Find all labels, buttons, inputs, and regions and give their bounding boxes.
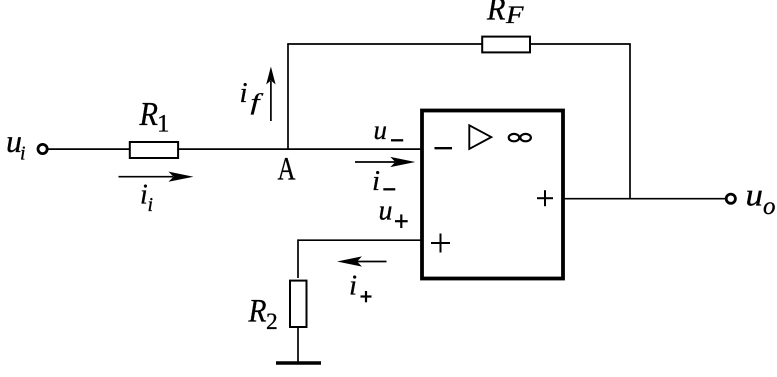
wire feedback top bbox=[287, 43, 631, 45]
svg-text:1: 1 bbox=[157, 111, 170, 138]
wire non-inverting input bbox=[298, 239, 421, 241]
svg-text:i: i bbox=[240, 77, 248, 109]
op-amp infinity gain symbol bbox=[509, 134, 520, 141]
svg-text:F: F bbox=[505, 2, 524, 29]
wire from non-inverting node down to R2 bbox=[297, 239, 299, 278]
svg-text:u: u bbox=[746, 177, 764, 213]
ground bbox=[276, 361, 321, 364]
resistor R1 bbox=[130, 142, 178, 158]
svg-text:R: R bbox=[486, 0, 505, 28]
wire R2 to ground bbox=[297, 327, 299, 362]
svg-text:2: 2 bbox=[266, 309, 278, 335]
wire feedback right vertical bbox=[629, 44, 631, 199]
svg-text:i: i bbox=[372, 165, 380, 197]
svg-text:o: o bbox=[763, 193, 776, 220]
resistor RF bbox=[482, 37, 530, 53]
op-amp inverting input minus sign bbox=[435, 147, 453, 149]
wire input u_i to R1 and on to op-amp inverting input bbox=[47, 148, 421, 150]
svg-text:i: i bbox=[148, 194, 154, 216]
svg-text:f: f bbox=[251, 90, 265, 115]
svg-text:u: u bbox=[379, 196, 393, 227]
current arrow i_minus bbox=[355, 161, 395, 163]
svg-text:A: A bbox=[278, 152, 296, 188]
resistor R2 bbox=[290, 281, 307, 327]
op-amp non-inverting plus sign bbox=[431, 242, 450, 244]
current arrow i_i bbox=[119, 176, 174, 178]
op-amp output plus sign bbox=[537, 197, 553, 199]
svg-text:i: i bbox=[20, 143, 26, 165]
terminal u_o open circle bbox=[726, 194, 735, 203]
current arrow i_plus (pointing left) bbox=[357, 261, 387, 263]
op-amp U1 box bbox=[422, 111, 563, 279]
wire output bbox=[563, 198, 726, 200]
current arrow i_f bbox=[270, 81, 272, 121]
svg-text:R: R bbox=[248, 294, 267, 330]
svg-text:R: R bbox=[139, 96, 159, 133]
wire feedback left vertical from node A bbox=[287, 44, 289, 150]
op-amp triangle symbol bbox=[469, 125, 491, 149]
svg-text:i: i bbox=[349, 270, 357, 302]
terminal u_i open circle bbox=[38, 144, 47, 153]
svg-text:u: u bbox=[374, 115, 388, 145]
